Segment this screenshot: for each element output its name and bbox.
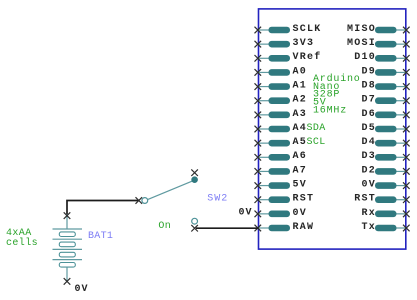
value label 4xAA cells	[6, 228, 38, 249]
svg-text:D4: D4	[361, 137, 376, 148]
pin A0 (U1 left row 4)	[255, 66, 308, 77]
svg-text:A2: A2	[293, 95, 308, 106]
svg-text:RAW: RAW	[293, 222, 315, 233]
pin RST (U1 right row 13)	[354, 194, 409, 205]
svg-text:cells: cells	[6, 237, 38, 249]
wire: SW2 On throw to U1 RAW pin	[196, 227, 259, 229]
pin A1 (U1 left row 5)	[255, 80, 308, 91]
svg-text:SCL: SCL	[307, 137, 326, 148]
svg-text:MOSI: MOSI	[347, 38, 376, 49]
svg-text:BAT1: BAT1	[88, 231, 113, 242]
pin D7 (U1 right row 6)	[361, 95, 409, 106]
svg-text:D6: D6	[361, 109, 376, 120]
svg-text:A3: A3	[293, 109, 308, 120]
pin Rx (U1 right row 14)	[361, 208, 409, 219]
pin D8 (U1 right row 5)	[361, 80, 409, 91]
svg-text:D3: D3	[361, 151, 376, 162]
pin D2 (U1 right row 11)	[361, 165, 409, 176]
svg-text:5V: 5V	[293, 179, 308, 190]
svg-text:MISO: MISO	[347, 24, 376, 35]
pin Tx (U1 right row 15)	[361, 222, 409, 233]
pin A4 (U1 left row 8)	[255, 123, 326, 134]
pin A2 (U1 left row 6)	[255, 95, 308, 106]
pin A5 (U1 left row 9)	[255, 137, 326, 148]
svg-text:D5: D5	[361, 123, 376, 134]
pin A7 (U1 left row 11)	[255, 165, 308, 176]
svg-text:Tx: Tx	[361, 222, 376, 233]
label On (switch position)	[158, 221, 171, 232]
battery BAT1 (4xAA cells)	[53, 212, 83, 284]
IC U1 Arduino Nano 328P body	[259, 9, 406, 249]
svg-text:RST: RST	[293, 194, 315, 205]
pin RAW (U1 left row 15)	[255, 222, 315, 233]
svg-text:0V: 0V	[293, 208, 308, 219]
designator label BAT1	[88, 231, 113, 242]
svg-text:On: On	[158, 221, 171, 232]
svg-text:D8: D8	[361, 80, 376, 91]
svg-text:A5: A5	[293, 137, 308, 148]
svg-text:A1: A1	[293, 80, 308, 91]
pin 0V (U1 left row 14)	[255, 208, 308, 219]
pin D3 (U1 right row 10)	[361, 151, 409, 162]
svg-text:D9: D9	[361, 66, 376, 77]
svg-text:0V: 0V	[75, 284, 89, 295]
svg-text:Rx: Rx	[361, 208, 376, 219]
svg-text:A6: A6	[293, 151, 308, 162]
pin D5 (U1 right row 8)	[361, 123, 409, 134]
pin RST (U1 left row 13)	[255, 194, 315, 205]
pin MOSI (U1 right row 2)	[347, 38, 410, 49]
designator label SW2	[207, 194, 228, 205]
pin D9 (U1 right row 4)	[361, 66, 409, 77]
pin VRef (U1 left row 3)	[255, 51, 322, 63]
pin A6 (U1 left row 10)	[255, 151, 308, 162]
pin 0V (U1 right row 12)	[361, 179, 409, 190]
svg-text:0V: 0V	[361, 179, 376, 190]
svg-text:RST: RST	[354, 194, 376, 205]
wire: battery + up and across to SW2 pole	[67, 201, 139, 215]
pin D4 (U1 right row 9)	[361, 137, 409, 148]
value label: Arduino Nano 328P 5V 16MHz	[313, 73, 361, 116]
pin A3 (U1 left row 7)	[255, 109, 308, 120]
svg-text:D7: D7	[361, 95, 376, 106]
svg-text:3V3: 3V3	[293, 38, 315, 49]
svg-text:16MHz: 16MHz	[313, 105, 347, 116]
pin 5V (U1 left row 12)	[255, 179, 308, 190]
svg-text:D2: D2	[361, 165, 376, 176]
net label 0V at U1 0V pin	[238, 207, 252, 218]
pin SCLK (U1 left row 1)	[255, 24, 322, 35]
pin 3V3 (U1 left row 2)	[255, 38, 315, 49]
svg-text:D10: D10	[354, 52, 376, 63]
svg-text:SCLK: SCLK	[293, 24, 322, 35]
net label 0V at battery negative	[75, 284, 89, 295]
svg-text:A0: A0	[293, 66, 308, 77]
svg-text:SW2: SW2	[207, 194, 228, 205]
svg-text:0V: 0V	[238, 207, 252, 218]
pin D6 (U1 right row 7)	[361, 109, 409, 120]
switch SW2 (SPDT)	[136, 169, 198, 231]
pin D10 (U1 right row 3)	[354, 52, 409, 63]
svg-text:SDA: SDA	[307, 123, 326, 134]
pin MISO (U1 right row 1)	[347, 24, 410, 35]
svg-text:A7: A7	[293, 165, 308, 176]
svg-text:VRef: VRef	[293, 51, 322, 63]
svg-text:A4: A4	[293, 123, 308, 134]
